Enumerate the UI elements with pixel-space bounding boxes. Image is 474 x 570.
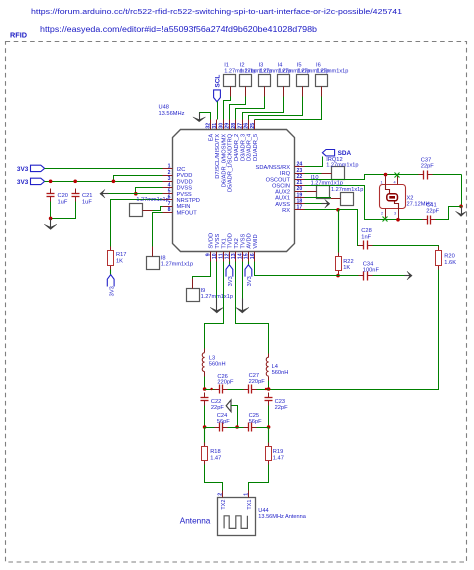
svg-text:U44: U44 <box>258 508 268 514</box>
ground arrow (mid, hollow) <box>226 400 231 412</box>
svg-text:R22: R22 <box>343 259 353 265</box>
svg-text:100nF: 100nF <box>363 267 380 273</box>
svg-text:1nF: 1nF <box>361 234 371 240</box>
svg-text:56pF: 56pF <box>249 419 262 425</box>
wire pin14 TVSS <box>242 262 244 299</box>
svg-text:R20: R20 <box>444 254 454 260</box>
svg-text:R19: R19 <box>273 449 283 455</box>
net flag 3V3 (row2) <box>31 178 45 184</box>
wire I2 to pin <box>245 87 247 97</box>
resistor R18 1.47 <box>204 428 206 447</box>
svg-text:2: 2 <box>381 212 383 216</box>
svg-text:32: 32 <box>206 123 212 129</box>
wire I1 to pin <box>230 87 232 97</box>
svg-text:https://easyeda.com/editor#id=: https://easyeda.com/editor#id=!a55093f56… <box>40 25 318 34</box>
wire pin10 TVSS <box>216 262 218 299</box>
svg-text:IRQ: IRQ <box>280 171 291 177</box>
pin 27 D3/ADR_3 (top) <box>242 120 244 130</box>
resistor R17 1K <box>110 247 112 251</box>
svg-text:3V3: 3V3 <box>228 276 234 286</box>
capacitor C23 22pF <box>265 397 273 399</box>
svg-text:1.27mm1x1p: 1.27mm1x1p <box>161 262 193 268</box>
svg-text:R18: R18 <box>210 449 220 455</box>
pin 22 OSCOUT (right) <box>295 179 305 181</box>
wire I4 to pin <box>283 87 285 97</box>
svg-text:PVSS: PVSS <box>177 192 192 198</box>
header I11 1.27mm1x1p <box>341 193 354 206</box>
svg-text:RFID: RFID <box>10 31 27 40</box>
pin 28 D4/ADR_2 (top) <box>235 120 237 130</box>
header I6 1.27mm1x1p <box>316 75 328 87</box>
svg-text:C28: C28 <box>361 228 371 234</box>
wire pin9 SVDD to I9 <box>193 262 211 279</box>
wire pin8 MFOUT to I8 <box>153 213 163 247</box>
svg-text:13.56MHz Antenna: 13.56MHz Antenna <box>258 514 306 520</box>
svg-text:13: 13 <box>231 253 237 259</box>
svg-text:13.56MHz: 13.56MHz <box>159 111 185 117</box>
svg-text:22pF: 22pF <box>275 405 288 411</box>
wire R20 down to antenna net <box>269 270 439 390</box>
ground arrow (VMID) <box>405 275 411 277</box>
wire OSCIN to crystal net <box>305 186 423 220</box>
antenna U44 body <box>218 498 256 536</box>
wire 3V3 rail row2 <box>45 181 163 183</box>
node junction pin2 <box>114 176 163 182</box>
svg-text:22pF: 22pF <box>421 163 434 169</box>
pin 31 D7/SCL/MISO/TX (top) <box>216 120 218 130</box>
header I1 1.27mm1x1p <box>224 75 236 87</box>
capacitor C25 56pF <box>248 423 250 432</box>
svg-text:31: 31 <box>212 123 218 129</box>
svg-text:SDA/NSS/RX: SDA/NSS/RX <box>256 165 291 171</box>
pin 21 OSCIN (right) <box>295 185 305 187</box>
svg-text:22pF: 22pF <box>426 208 439 214</box>
pin 18 AVSS (right) <box>295 203 305 205</box>
wire R22 to VMID rail <box>338 275 340 276</box>
svg-text:C20: C20 <box>58 193 68 199</box>
svg-text:19: 19 <box>297 192 303 198</box>
svg-text:18: 18 <box>297 199 303 205</box>
svg-text:4: 4 <box>168 182 171 188</box>
svg-text:DVDD: DVDD <box>177 179 193 185</box>
node crystal bottom <box>396 218 400 222</box>
svg-text:1.27mm1x1p: 1.27mm1x1p <box>136 197 168 203</box>
svg-text:SVDD: SVDD <box>209 233 215 249</box>
svg-text:22: 22 <box>297 174 303 180</box>
svg-text:TVDD: TVDD <box>228 233 234 248</box>
svg-text:2: 2 <box>168 170 171 176</box>
svg-text:D2/ADR_4: D2/ADR_4 <box>247 134 253 161</box>
svg-text:I2C: I2C <box>177 167 186 173</box>
svg-text:17: 17 <box>297 205 303 211</box>
net flag 3V3 (TVDD) <box>229 262 231 265</box>
svg-text:SCL: SCL <box>214 75 221 88</box>
svg-text:L4: L4 <box>272 364 278 370</box>
pin 7 MFIN (left) <box>163 206 173 208</box>
svg-text:D3/ADR_3: D3/ADR_3 <box>240 134 246 161</box>
svg-text:3V3: 3V3 <box>247 276 253 286</box>
svg-text:NRSTPD: NRSTPD <box>177 198 200 204</box>
header I4 1.27mm1x1p <box>278 75 290 87</box>
net flag 3V3 (R17) <box>110 270 112 275</box>
wire pin13 TX2 <box>236 262 269 354</box>
svg-text:2: 2 <box>218 493 224 496</box>
svg-text:14: 14 <box>237 253 243 259</box>
svg-text:Antenna: Antenna <box>180 516 211 526</box>
svg-text:1uF: 1uF <box>58 199 68 205</box>
wire I6 to pin <box>321 87 323 97</box>
svg-text:26: 26 <box>244 123 250 129</box>
svg-text:29: 29 <box>225 123 231 129</box>
svg-text:1K: 1K <box>343 265 350 271</box>
svg-text:R17: R17 <box>116 252 126 258</box>
pin 14 TVSS (bottom) <box>242 252 244 262</box>
pin 10 TVSS (bottom) <box>216 252 218 262</box>
capacitor C24 56pF <box>205 427 215 429</box>
wire 3V3 to pin1 I2C <box>45 168 163 170</box>
wire pin5 PVSS <box>106 193 163 195</box>
wire I3 to pin <box>264 87 266 97</box>
node crystal top <box>384 173 388 177</box>
svg-text:24: 24 <box>297 162 303 168</box>
svg-text:27: 27 <box>237 123 243 129</box>
wire pin24 to SDA <box>305 157 323 167</box>
pin 32 EA (top) <box>210 120 212 130</box>
svg-text:3V3: 3V3 <box>17 179 29 186</box>
svg-text:D5/ADR_1/SCK/DTRQ: D5/ADR_1/SCK/DTRQ <box>228 133 234 192</box>
ground arrow (TVSS b) <box>242 299 244 312</box>
net flag 3V3 (row1) <box>31 165 45 171</box>
wire C28 to R20 <box>373 246 439 247</box>
svg-text:1uF: 1uF <box>82 199 92 205</box>
header IRQ12 1.27mm1x1p <box>332 167 345 180</box>
wire pin17 RX <box>305 209 339 211</box>
ground arrow (crystal) <box>461 207 463 215</box>
wire C24-C25 <box>228 427 244 429</box>
inductor L4 560nH <box>266 357 268 376</box>
svg-text:15: 15 <box>244 253 250 259</box>
no-connect x (crystal bottom) <box>383 217 388 222</box>
wire pin4 DVSS <box>136 188 163 194</box>
capacitor C21 <box>72 193 80 195</box>
wire C37 to right rail <box>433 174 462 176</box>
pin 30 D6/ADR_0/MOSI/MX (top) <box>223 120 225 130</box>
wire EA <box>200 113 211 120</box>
pin 20 AUX2 (right) <box>295 191 305 193</box>
svg-text:AUX2: AUX2 <box>275 190 290 196</box>
svg-text:1.27mm1x1p: 1.27mm1x1p <box>326 163 358 169</box>
svg-text:DVSS: DVSS <box>177 186 193 192</box>
svg-text:SDA: SDA <box>338 150 352 157</box>
svg-text:C21: C21 <box>82 193 92 199</box>
pin 12 TVDD (bottom) <box>229 252 231 262</box>
pin 4 DVSS (left) <box>163 187 173 189</box>
svg-text:1.47: 1.47 <box>210 455 221 461</box>
svg-text:D4/ADR_2: D4/ADR_2 <box>234 134 240 161</box>
wire OSCOUT to crystal net <box>305 175 419 180</box>
ground arrow (TVSS a) <box>216 299 218 312</box>
svg-text:1.27mm1x1p: 1.27mm1x1p <box>316 68 348 74</box>
resistor R19 1.47 <box>268 428 270 447</box>
svg-text:OSCOUT: OSCOUT <box>266 177 291 183</box>
wire RX to C28 <box>339 210 359 246</box>
svg-text:AVDD: AVDD <box>247 233 253 248</box>
capacitor C20 <box>47 193 55 195</box>
svg-text:8: 8 <box>168 207 171 213</box>
wire pin7 MFIN to I7 <box>153 207 163 211</box>
capacitor C34 100nF <box>363 272 365 281</box>
wire pin19 AUX1 to I11 <box>305 198 331 199</box>
svg-text:1: 1 <box>381 180 383 184</box>
resistor R20 1.6K <box>438 247 440 251</box>
wire C22 to row2 <box>204 406 206 428</box>
svg-text:OSCIN: OSCIN <box>272 183 290 189</box>
wire C23 to row2 <box>268 406 270 428</box>
wire SCL to pin31 <box>217 102 219 120</box>
header I9 1.27mm1x1p <box>187 289 200 302</box>
pin 15 AVDD (bottom) <box>248 252 250 262</box>
svg-text:56pF: 56pF <box>217 419 230 425</box>
inductor L3 560nH <box>202 353 204 372</box>
svg-text:1: 1 <box>243 493 249 496</box>
svg-text:10: 10 <box>212 253 218 259</box>
wire pin6 NRSTPD <box>111 200 163 247</box>
svg-text:30: 30 <box>218 123 224 129</box>
pin 2 PVDD (left) <box>163 175 173 177</box>
svg-text:16: 16 <box>250 253 256 259</box>
wire L4 to node <box>268 381 270 390</box>
capacitor C41 22pF <box>427 216 429 225</box>
svg-text:D1/ADR_5: D1/ADR_5 <box>253 134 259 161</box>
antenna coil <box>224 516 247 529</box>
svg-text:3V3: 3V3 <box>17 166 29 173</box>
wire R19 to antenna <box>249 465 269 491</box>
wire pin18 AVSS <box>305 203 323 205</box>
wire C26-C27 <box>228 389 244 391</box>
wire pin20 AUX2 to I10 <box>305 191 307 193</box>
ground arrow (EA) <box>199 113 201 121</box>
svg-text:MFIN: MFIN <box>177 204 191 210</box>
wire C34 to arrow <box>373 275 405 277</box>
svg-text:AVSS: AVSS <box>275 202 290 208</box>
svg-text:12: 12 <box>225 253 231 259</box>
pin 26 D2/ADR_4 (top) <box>248 120 250 130</box>
svg-text:X2: X2 <box>407 195 414 201</box>
ground arrow (C20/C21) <box>50 219 52 228</box>
wire C41 to right rail <box>436 207 462 220</box>
svg-text:28: 28 <box>231 123 237 129</box>
svg-text:TX2: TX2 <box>221 500 227 510</box>
header I5 1.27mm1x1p <box>297 75 309 87</box>
svg-text:TX1: TX1 <box>221 238 227 248</box>
pin 9 SVDD (bottom) <box>210 252 212 262</box>
svg-text:https://forum.arduino.cc/t/rc5: https://forum.arduino.cc/t/rc522-rfid-rc… <box>31 7 402 16</box>
wire mid arrow down <box>232 406 238 428</box>
resistor R22 1K <box>338 210 340 253</box>
svg-text:27.12MHz: 27.12MHz <box>407 202 433 208</box>
pin 17 RX (right) <box>295 209 305 211</box>
wire I5 to pin <box>302 87 304 97</box>
svg-text:U48: U48 <box>159 105 169 111</box>
header I10 1.27mm1x1p <box>317 186 330 199</box>
capacitor C27 220pF <box>248 385 250 394</box>
svg-text:VMID: VMID <box>253 234 259 248</box>
header I2 1.27mm1x1p <box>240 75 252 87</box>
pin 29 D5/ADR_1/SCK/DTRQ (top) <box>229 120 231 130</box>
svg-text:PVDD: PVDD <box>177 173 193 179</box>
pin 11 TX1 (bottom) <box>223 252 225 262</box>
pin 3 DVDD (left) <box>163 181 173 183</box>
wire C21 down <box>51 202 76 219</box>
svg-text:5: 5 <box>168 189 171 195</box>
pin 1 I2C (left) <box>163 168 173 170</box>
no-connect x (crystal top) <box>395 173 400 178</box>
svg-text:L3: L3 <box>209 356 215 362</box>
svg-text:EA: EA <box>209 134 215 142</box>
pin 6 NRSTPD (left) <box>163 199 173 201</box>
wire R18 to antenna <box>205 465 223 491</box>
net flag SDA <box>322 150 334 156</box>
svg-text:1.27mm1x1p: 1.27mm1x1p <box>331 187 363 193</box>
net flag 3V3 (AVDD) <box>248 262 250 265</box>
op-amp U48 body <box>173 130 295 252</box>
wire pin23 IRQ to IRQ12 <box>305 173 322 175</box>
svg-text:22pF: 22pF <box>211 405 224 411</box>
wire C20 down <box>50 202 52 219</box>
svg-text:1.6K: 1.6K <box>444 260 456 266</box>
svg-text:1.47: 1.47 <box>273 455 284 461</box>
svg-text:MFOUT: MFOUT <box>177 210 198 216</box>
svg-text:TVSS: TVSS <box>240 234 246 249</box>
ground arrow (AVSS) <box>322 203 329 205</box>
header I3 1.27mm1x1p <box>259 75 271 87</box>
ground arrow (PVSS) <box>102 193 109 195</box>
header I7 1.27mm1x1p <box>130 204 143 217</box>
pin 8 MFOUT (left) <box>163 212 173 214</box>
header I8 1.27mm1x1p <box>147 257 160 270</box>
svg-text:23: 23 <box>297 168 303 174</box>
capacitor C26 220pF <box>205 389 215 391</box>
pin 5 PVSS (left) <box>163 193 173 195</box>
svg-text:TX2: TX2 <box>234 238 240 248</box>
crystal X2 27.12MHz <box>380 185 406 209</box>
pin 13 TX2 (bottom) <box>235 252 237 262</box>
svg-text:TVSS: TVSS <box>215 234 221 249</box>
capacitor C37 22pF <box>423 171 425 180</box>
pin 16 VMID (bottom) <box>254 252 256 262</box>
wire pin11 TX1 <box>205 262 224 349</box>
svg-text:220pF: 220pF <box>217 380 234 386</box>
svg-text:1K: 1K <box>116 258 123 264</box>
capacitor C22 22pF <box>201 397 209 399</box>
pin 19 AUX1 (right) <box>295 197 305 199</box>
svg-text:3: 3 <box>394 212 396 216</box>
svg-text:21: 21 <box>297 180 303 186</box>
svg-text:25: 25 <box>250 123 256 129</box>
wire L3 to node <box>204 377 206 390</box>
svg-text:4: 4 <box>394 180 396 184</box>
wire right rail down <box>461 175 463 211</box>
pin 23 IRQ (right) <box>295 173 305 175</box>
svg-text:11: 11 <box>218 253 224 259</box>
svg-text:AUX1: AUX1 <box>275 196 290 202</box>
svg-text:TX1: TX1 <box>247 500 253 510</box>
svg-text:3: 3 <box>168 176 171 182</box>
svg-text:20: 20 <box>297 186 303 192</box>
pin 25 D1/ADR_5 (top) <box>254 120 256 130</box>
svg-text:220pF: 220pF <box>249 379 266 385</box>
svg-text:1: 1 <box>168 164 171 170</box>
svg-text:D6/ADR_0/MOSI/MX: D6/ADR_0/MOSI/MX <box>221 134 227 188</box>
capacitor C28 1nF <box>363 241 365 250</box>
svg-text:9: 9 <box>206 253 212 256</box>
svg-text:D7/SCL/MISO/TX: D7/SCL/MISO/TX <box>215 134 221 179</box>
svg-text:RX: RX <box>282 208 290 214</box>
svg-text:3V3: 3V3 <box>109 286 115 296</box>
svg-text:560nH: 560nH <box>209 362 226 368</box>
wire pin16 VMID rail <box>255 262 359 276</box>
net flag SCL <box>214 90 221 102</box>
svg-text:560nH: 560nH <box>272 370 289 376</box>
pin 24 SDA/NSS/RX (right) <box>295 166 305 168</box>
